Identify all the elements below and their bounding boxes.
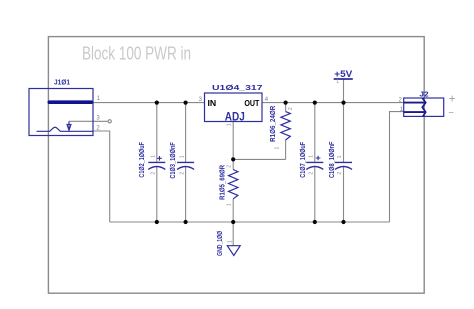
svg-text:U1Ø4_317: U1Ø4_317 [212, 83, 263, 92]
svg-text:1: 1 [275, 147, 281, 150]
wire R105 top pin [232, 159, 234, 169]
wire GND stub [232, 222, 234, 246]
svg-text:C1Ø7_1ØØuF: C1Ø7_1ØØuF [298, 141, 307, 177]
junction dot top rail at C102 [155, 101, 159, 105]
svg-text:1: 1 [227, 203, 233, 206]
wire R106 bottom pin [285, 140, 287, 159]
svg-text:2: 2 [179, 172, 185, 175]
wire C102 bottom pin [156, 167, 158, 222]
regulator U104 (LM317) [199, 83, 269, 127]
junction dot top rail at C107 [313, 101, 317, 105]
svg-text:2: 2 [288, 107, 294, 110]
svg-text:ADJ: ADJ [225, 109, 245, 123]
wire C107 bottom pin [314, 167, 316, 222]
svg-text:2: 2 [227, 165, 233, 168]
capacitor C107 100uF [298, 141, 323, 177]
J2 pin 2 blade [404, 102, 425, 104]
svg-text:J1Ø1: J1Ø1 [54, 78, 70, 87]
svg-text:1: 1 [336, 79, 339, 85]
svg-text:1: 1 [226, 123, 232, 126]
svg-text:C1Ø8_1ØØnF: C1Ø8_1ØØnF [327, 141, 336, 178]
capacitor C103 100nF [168, 142, 194, 179]
J101 sleeve contact wavy line [37, 127, 93, 131]
capacitor C102 100uF [137, 142, 166, 178]
junction dot bottom rail at R105/GND [231, 220, 235, 224]
connector J101 (DC power jack) [29, 78, 101, 136]
svg-text:1: 1 [337, 155, 343, 158]
wire C102 top pin [156, 103, 158, 162]
resistor R105 690R [217, 164, 238, 206]
svg-text:1: 1 [309, 155, 315, 158]
J2 pin 1 blade [404, 111, 425, 113]
svg-text:2: 2 [150, 172, 156, 175]
svg-text:GND_1ØØ: GND_1ØØ [215, 231, 224, 256]
capacitor C108 100nF [327, 141, 352, 178]
svg-text:Block 100 PWR in: Block 100 PWR in [82, 42, 191, 63]
C107 plus sign [316, 156, 321, 161]
junction dot bottom rail at C107 [313, 220, 317, 224]
wire C107 top pin [314, 103, 316, 162]
svg-text:R1Ø5_69ØR: R1Ø5_69ØR [217, 164, 226, 199]
wire C103 top pin [185, 103, 187, 162]
C102 plus sign [157, 156, 162, 161]
svg-text:IN: IN [208, 99, 217, 108]
junction dot top rail at C108/+5V [341, 101, 345, 105]
wire J101 pin2 route [93, 131, 110, 222]
wire U104 ADJ pin down [232, 122, 234, 160]
svg-text:J2: J2 [419, 89, 428, 98]
power symbol +5V [334, 69, 353, 85]
svg-text:2: 2 [337, 172, 343, 175]
svg-text:C1Ø3_1ØØnF: C1Ø3_1ØØnF [168, 142, 177, 179]
resistor R106 240R [268, 105, 294, 149]
svg-text:2: 2 [308, 172, 314, 175]
J2 plug zigzag [422, 98, 425, 116]
J101 switch arrow [67, 121, 71, 130]
wire C103 bottom pin [185, 167, 187, 222]
wire C108 top pin [343, 103, 345, 162]
J101 center pin bar [49, 100, 91, 104]
wire top rail left (J101 pin1 to U104 IN) [93, 102, 205, 104]
wire R105 bottom pin [232, 199, 234, 222]
svg-text:1: 1 [228, 240, 234, 243]
wire ADJ node horizontal [233, 158, 285, 160]
svg-text:OUT: OUT [244, 99, 259, 108]
svg-text:1: 1 [151, 155, 157, 158]
junction dot ADJ node [231, 157, 235, 161]
wire C108 bottom pin [343, 167, 345, 222]
junction dot bottom rail at C108 [341, 220, 345, 224]
connector J2 (output plug) [399, 89, 456, 118]
wire bottom ground rail [110, 221, 390, 223]
junction dot bottom rail at C103 [184, 220, 188, 224]
wire J101 pin3 with NC circle [69, 120, 111, 123]
wire R106 top pin [285, 103, 287, 112]
junction dot bottom rail at C102 [155, 220, 159, 224]
svg-text:C1Ø2_1ØØuF: C1Ø2_1ØØuF [137, 142, 146, 178]
wire J2 pin1 route [390, 112, 404, 222]
svg-text:−: − [448, 107, 454, 118]
wire top rail right (U104 OUT to J2 pin2) [262, 102, 404, 104]
junction dot top rail at R106 [284, 101, 288, 105]
svg-text:R1Ø6_24ØR: R1Ø6_24ØR [268, 105, 277, 142]
ground symbol GND_100 [215, 231, 240, 256]
svg-text:+: + [449, 94, 456, 106]
junction dot top rail at C103 [184, 101, 188, 105]
svg-text:1: 1 [179, 155, 185, 158]
wire +5V stub [343, 80, 345, 103]
